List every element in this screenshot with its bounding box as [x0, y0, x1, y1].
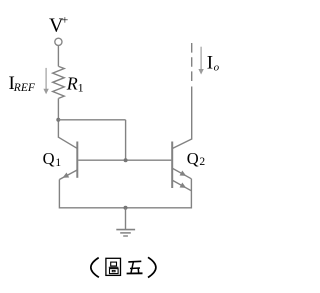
- current arrow IREF: [43, 68, 48, 94]
- wire R1 bottom to Q1 collector: [57, 98, 59, 137]
- label Q1: [43, 149, 62, 169]
- node V+ label: [49, 13, 69, 37]
- svg-text:REF: REF: [13, 82, 36, 94]
- svg-text:Q: Q: [187, 149, 199, 168]
- label R1: [66, 74, 84, 95]
- Q2 emitter 2 arrowhead: [180, 183, 187, 188]
- svg-text:+: +: [62, 13, 69, 27]
- Q2 emitter 1 lead: [173, 169, 192, 179]
- wire base tap vertical: [125, 120, 127, 160]
- Q1 emitter lead: [59, 170, 77, 179]
- Q1 collector lead: [58, 137, 76, 148]
- Q1 emitter arrowhead: [63, 173, 70, 178]
- wire Q1 emitter down: [58, 180, 60, 209]
- svg-text:1: 1: [55, 157, 61, 169]
- transistor Q1: [58, 137, 77, 179]
- wire Io dashed: [191, 43, 193, 81]
- label Q2: [187, 149, 206, 168]
- label Io: [207, 52, 220, 73]
- ground: [116, 208, 135, 236]
- Q2 emitter 2 lead: [173, 181, 192, 191]
- resistor R1: [53, 66, 64, 98]
- wire bottom rail: [59, 207, 191, 209]
- wire node A to base tap: [58, 119, 125, 121]
- caption Wu (five) glyph: [127, 261, 143, 273]
- svg-text:Q: Q: [43, 149, 55, 168]
- svg-text:I: I: [207, 52, 213, 73]
- caption open paren: [91, 258, 99, 278]
- terminal V+: [55, 38, 62, 45]
- svg-text:2: 2: [199, 156, 205, 168]
- wire terminal to R1 top: [57, 46, 59, 67]
- svg-text:o: o: [214, 62, 220, 74]
- node junction dot A: [56, 118, 60, 122]
- Q2 collector lead: [173, 139, 192, 148]
- svg-text:R: R: [66, 74, 78, 94]
- caption Tu (figure) glyph: [106, 258, 121, 275]
- Q2 base bar: [171, 142, 173, 189]
- node junction dot C: [124, 206, 128, 210]
- svg-text:1: 1: [78, 81, 84, 95]
- transistor Q2: [172, 139, 192, 191]
- Q1 base bar: [76, 142, 78, 178]
- Q2 emitter 1 arrowhead: [180, 171, 187, 176]
- caption close paren: [148, 257, 156, 277]
- node junction dot B: [124, 158, 128, 162]
- label IREF: [9, 73, 36, 94]
- wire base rail Q1-Q2: [78, 159, 171, 161]
- current arrow Io: [198, 47, 203, 75]
- wire Q2 emitter down: [190, 179, 192, 209]
- wire Io solid to Q2 collector: [191, 87, 193, 140]
